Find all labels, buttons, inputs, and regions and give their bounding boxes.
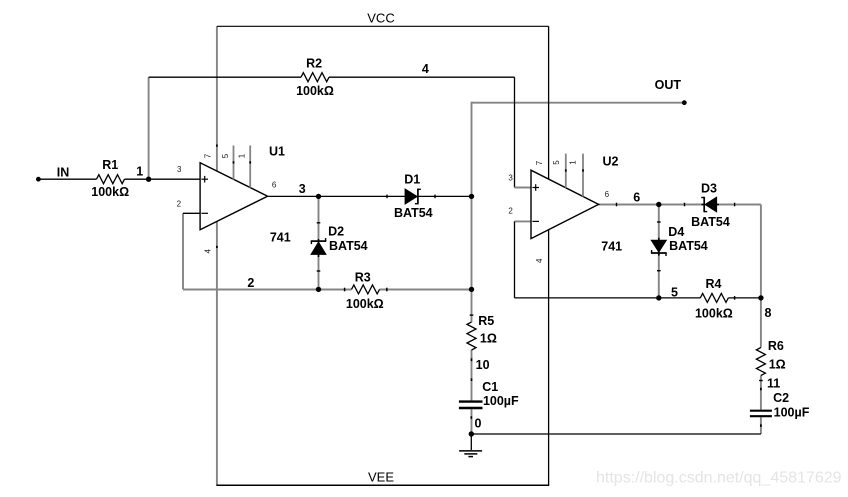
svg-text:5: 5 xyxy=(671,285,678,299)
svg-text:IN: IN xyxy=(57,166,70,180)
svg-text:2: 2 xyxy=(508,207,513,216)
svg-text:C1: C1 xyxy=(482,380,498,394)
label IN xyxy=(57,166,70,180)
svg-text:R1: R1 xyxy=(102,158,118,172)
node label 2 xyxy=(247,276,254,290)
svg-text:100µF: 100µF xyxy=(774,406,810,420)
svg-text:2: 2 xyxy=(177,200,182,209)
wire OUT vertical lower (R5 C1 chain) xyxy=(470,289,472,434)
U1 pin 7 end tick xyxy=(216,145,218,147)
label D2 xyxy=(328,225,344,239)
wire U1 - input xyxy=(183,212,200,214)
svg-text:1: 1 xyxy=(136,165,143,179)
resistor R6 pin tick xyxy=(759,380,763,382)
U1 pin number 4 xyxy=(204,249,213,254)
svg-text:5: 5 xyxy=(552,160,561,165)
label OUT xyxy=(655,78,682,92)
node label 10 xyxy=(476,358,490,372)
node 1 junction xyxy=(146,177,151,182)
capacitor C1 xyxy=(459,402,483,408)
svg-text:D3: D3 xyxy=(701,181,717,195)
diode D2 xyxy=(311,238,327,257)
svg-text:VEE: VEE xyxy=(368,470,394,485)
wire net5 row with R4 xyxy=(515,297,761,299)
value U1 741 xyxy=(270,231,291,245)
svg-text:R6: R6 xyxy=(768,339,784,353)
value D3 BAT54 xyxy=(691,215,730,229)
wire power rail right branch (U2 pins 7 and 4) xyxy=(548,26,550,485)
node 6 junction xyxy=(656,202,661,207)
svg-text:R3: R3 xyxy=(355,270,371,284)
node 0 junction xyxy=(469,431,474,436)
svg-text:100kΩ: 100kΩ xyxy=(91,185,129,199)
label C2 xyxy=(773,391,789,405)
wire R2 row (net 4) xyxy=(149,76,515,78)
svg-text:8: 8 xyxy=(765,306,772,320)
U1 pin number 6 xyxy=(272,180,277,189)
U1 pin number 7 xyxy=(204,153,213,158)
value R3 100k xyxy=(346,297,384,311)
svg-text:6: 6 xyxy=(605,190,610,199)
svg-text:4: 4 xyxy=(422,62,429,76)
value R4 100k xyxy=(695,306,733,320)
svg-text:OUT: OUT xyxy=(655,78,682,92)
value D4 BAT54 xyxy=(669,239,708,253)
VCC rail xyxy=(217,25,549,27)
diode D4 xyxy=(651,238,667,256)
svg-text:C2: C2 xyxy=(773,391,789,405)
svg-text:11: 11 xyxy=(767,377,780,391)
wire OUT vertical upper xyxy=(471,102,473,290)
svg-text:3: 3 xyxy=(299,182,306,196)
value R2 100k xyxy=(296,84,334,98)
U2 pin number 6 xyxy=(605,190,610,199)
resistor R5 xyxy=(467,322,476,350)
value D2 BAT54 xyxy=(329,239,368,253)
U1 pin number 1 xyxy=(238,153,247,158)
svg-text:https://blog.csdn.net/qq_45817: https://blog.csdn.net/qq_45817629 xyxy=(596,470,842,487)
U2 pin 1 stub xyxy=(582,154,584,197)
node label 4 xyxy=(422,62,429,76)
node label 8 xyxy=(765,306,772,320)
svg-text:BAT54: BAT54 xyxy=(691,215,730,229)
ground xyxy=(459,434,482,457)
svg-text:6: 6 xyxy=(633,190,640,204)
svg-text:100kΩ: 100kΩ xyxy=(296,84,334,98)
svg-text:3: 3 xyxy=(508,173,513,182)
svg-text:4: 4 xyxy=(204,249,213,254)
U2 pin number 7 xyxy=(535,160,544,165)
node label 0 xyxy=(475,416,482,430)
U2 pin number 5 xyxy=(552,160,561,165)
diode D4 pin ticks xyxy=(657,222,661,271)
VEE rail xyxy=(216,484,549,486)
node 2 junction at D2 xyxy=(316,287,321,292)
node 3 junction xyxy=(316,194,321,199)
label R2 xyxy=(306,56,322,70)
label U2 xyxy=(603,154,619,168)
wire D3 to node 8 vertical xyxy=(760,205,762,298)
resistor R2 xyxy=(301,73,329,82)
wire IN row to U1 + input xyxy=(38,178,200,180)
label R3 xyxy=(355,270,371,284)
U2 pin number 2 xyxy=(508,207,513,216)
svg-text:741: 741 xyxy=(601,240,622,254)
svg-text:100kΩ: 100kΩ xyxy=(695,306,733,320)
svg-text:D1: D1 xyxy=(404,173,420,187)
svg-text:R2: R2 xyxy=(306,56,322,70)
svg-text:3: 3 xyxy=(177,165,182,174)
diode D3 pin ticks xyxy=(685,203,735,207)
svg-text:1Ω: 1Ω xyxy=(480,331,497,345)
svg-text:R4: R4 xyxy=(706,277,722,291)
diode D1 pin ticks xyxy=(387,195,435,199)
wire net2 row with R3 xyxy=(183,288,472,292)
svg-text:4: 4 xyxy=(535,258,544,263)
diode D1 xyxy=(405,189,421,205)
U1 pin 1 stub xyxy=(249,146,251,188)
U1 pin number 5 xyxy=(221,153,230,158)
node 5 junction xyxy=(656,295,661,300)
value U2 741 xyxy=(601,240,622,254)
svg-text:D2: D2 xyxy=(328,225,344,239)
label R5 xyxy=(478,314,494,328)
wire ground row (net 0) xyxy=(471,433,761,435)
label D3 xyxy=(701,181,717,195)
label VCC xyxy=(367,11,394,26)
svg-text:6: 6 xyxy=(272,180,277,189)
U1 pin 4 end tick xyxy=(216,246,218,248)
wire power rail left branch (U1 pins 7 and 4) xyxy=(216,26,218,485)
svg-text:VCC: VCC xyxy=(367,11,394,26)
svg-text:BAT54: BAT54 xyxy=(394,206,433,220)
value R1 100k xyxy=(91,185,129,199)
resistor R5 pin tick xyxy=(470,314,474,316)
diode D2 pin ticks xyxy=(317,223,321,271)
label D1 xyxy=(404,173,420,187)
svg-text:1Ω: 1Ω xyxy=(769,357,786,371)
svg-text:2: 2 xyxy=(247,276,254,290)
node D1 cathode junction xyxy=(469,194,474,199)
svg-text:100kΩ: 100kΩ xyxy=(346,297,384,311)
resistor R6 xyxy=(756,348,765,376)
wire net4 riser to U2 + input xyxy=(515,77,532,187)
node label 6 xyxy=(633,190,640,204)
label VEE xyxy=(368,470,394,485)
label C1 xyxy=(482,380,498,394)
node 2 junction at R3 right xyxy=(469,287,474,292)
node OUT terminal xyxy=(682,100,687,105)
node 8 junction xyxy=(758,295,763,300)
U2 pin number 1 xyxy=(569,160,578,165)
label R1 xyxy=(102,158,118,172)
wire D4 branch vertical xyxy=(658,205,660,298)
svg-text:7: 7 xyxy=(204,153,213,158)
label R4 xyxy=(706,277,722,291)
node label 3 xyxy=(299,182,306,196)
op-amp U1 xyxy=(200,163,268,230)
wire node1 riser to R2 row xyxy=(148,77,150,179)
svg-text:R5: R5 xyxy=(478,314,494,328)
U2 pin 5 stub xyxy=(565,154,567,188)
value R5 1ohm xyxy=(480,331,497,345)
svg-text:0: 0 xyxy=(475,416,482,430)
wire U2 output row (net 6) xyxy=(599,203,761,207)
svg-text:1: 1 xyxy=(238,153,247,158)
wire U1 output row (net 3) xyxy=(268,195,472,197)
label R6 xyxy=(768,339,784,353)
watermark xyxy=(596,470,842,487)
svg-text:100µF: 100µF xyxy=(483,394,519,408)
U1 pin number 2 xyxy=(177,200,182,209)
svg-text:5: 5 xyxy=(221,153,230,158)
svg-text:U2: U2 xyxy=(603,154,619,168)
node label 11 xyxy=(767,377,780,391)
wire U1 inverting feedback vertical xyxy=(182,213,184,289)
U2 pin number 4 xyxy=(535,258,544,263)
svg-text:741: 741 xyxy=(270,231,291,245)
value D1 BAT54 xyxy=(394,206,433,220)
capacitor C2 xyxy=(750,411,772,417)
resistor R1 xyxy=(97,175,125,184)
value C1 100uF xyxy=(483,394,519,408)
resistor R4 xyxy=(700,293,734,302)
svg-text:7: 7 xyxy=(535,160,544,165)
diode D3 xyxy=(701,197,719,212)
node label 5 xyxy=(671,285,678,299)
svg-text:U1: U1 xyxy=(269,145,285,159)
svg-text:BAT54: BAT54 xyxy=(669,239,708,253)
svg-text:1: 1 xyxy=(569,160,578,165)
U2 pin number 3 xyxy=(508,173,513,182)
wire U2 - input xyxy=(515,221,532,298)
svg-text:D4: D4 xyxy=(668,225,684,239)
node IN terminal xyxy=(36,177,41,182)
U1 pin number 3 xyxy=(177,165,182,174)
wire node8 vertical lower (R6 C2 chain) xyxy=(760,298,762,434)
node label 1 xyxy=(136,165,143,179)
label U1 xyxy=(269,145,285,159)
label D4 xyxy=(668,225,684,239)
svg-text:10: 10 xyxy=(476,358,490,372)
U1 pin 5 stub xyxy=(233,146,235,180)
resistor R3 xyxy=(352,285,380,294)
wire D2 branch vertical xyxy=(318,196,320,289)
op-amp U2 xyxy=(531,170,599,238)
value C2 100uF xyxy=(774,406,810,420)
svg-text:BAT54: BAT54 xyxy=(329,239,368,253)
value R6 1ohm xyxy=(769,357,786,371)
wire OUT row xyxy=(472,102,685,104)
